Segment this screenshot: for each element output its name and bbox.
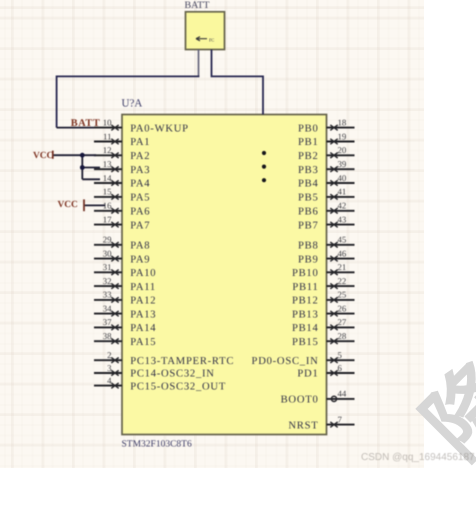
svg-text:42: 42 — [338, 201, 347, 211]
svg-text:41: 41 — [338, 187, 347, 197]
svg-text:PA5: PA5 — [130, 193, 150, 204]
svg-text:10: 10 — [103, 117, 112, 127]
svg-text:PD1: PD1 — [297, 369, 318, 380]
svg-text:BATT: BATT — [185, 0, 210, 11]
svg-text:22: 22 — [338, 276, 347, 286]
svg-text:BATT: BATT — [71, 118, 100, 129]
svg-text:PC13-TAMPER-RTC: PC13-TAMPER-RTC — [130, 356, 234, 367]
svg-text:45: 45 — [338, 235, 347, 245]
svg-text:PA8: PA8 — [130, 241, 150, 252]
svg-text:5: 5 — [338, 350, 343, 360]
svg-text:PB5: PB5 — [298, 193, 319, 204]
svg-text:37: 37 — [103, 317, 112, 327]
svg-text:44: 44 — [338, 389, 347, 399]
svg-text:6: 6 — [338, 363, 343, 373]
svg-text:13: 13 — [103, 159, 112, 169]
svg-text:PB15: PB15 — [292, 337, 319, 348]
svg-text:PB4: PB4 — [298, 179, 319, 190]
svg-text:PA11: PA11 — [130, 282, 156, 293]
svg-text:PC14-OSC32_IN: PC14-OSC32_IN — [130, 369, 215, 380]
svg-text:PB13: PB13 — [292, 309, 319, 320]
svg-text:21: 21 — [338, 262, 347, 272]
svg-text:PB2: PB2 — [298, 151, 319, 162]
svg-text:25: 25 — [338, 290, 347, 300]
svg-text:VCC: VCC — [33, 151, 54, 161]
svg-text:30: 30 — [103, 248, 112, 258]
svg-text:PC15-OSC32_OUT: PC15-OSC32_OUT — [130, 381, 226, 392]
svg-text:PB11: PB11 — [292, 282, 318, 293]
svg-text:17: 17 — [103, 214, 112, 224]
svg-text:PA9: PA9 — [130, 254, 150, 265]
svg-text:31: 31 — [103, 262, 112, 272]
svg-text:26: 26 — [338, 303, 347, 313]
svg-text:PB9: PB9 — [298, 254, 319, 265]
svg-text:19: 19 — [338, 131, 347, 141]
svg-text:CSDN @qq_1694456187: CSDN @qq_1694456187 — [361, 452, 475, 463]
svg-text:PA15: PA15 — [130, 337, 156, 348]
svg-text:PB14: PB14 — [292, 323, 319, 334]
svg-text:PB3: PB3 — [298, 165, 319, 176]
svg-text:PB10: PB10 — [292, 268, 319, 279]
svg-text:46: 46 — [338, 248, 347, 258]
svg-text:PB7: PB7 — [298, 220, 319, 231]
svg-text:PA10: PA10 — [130, 268, 156, 279]
svg-text:PA1: PA1 — [130, 137, 150, 148]
svg-text:34: 34 — [103, 303, 112, 313]
svg-text:PA13: PA13 — [130, 309, 156, 320]
svg-text:11: 11 — [103, 131, 111, 141]
svg-text:PA14: PA14 — [130, 323, 156, 334]
svg-text:PA6: PA6 — [130, 207, 150, 218]
svg-text:PA12: PA12 — [130, 296, 156, 307]
svg-text:28: 28 — [338, 331, 347, 341]
svg-text:PA4: PA4 — [130, 179, 150, 190]
svg-text:PD0-OSC_IN: PD0-OSC_IN — [252, 356, 319, 367]
svg-text:39: 39 — [338, 159, 347, 169]
svg-text:15: 15 — [103, 187, 112, 197]
svg-text:7: 7 — [338, 414, 343, 424]
svg-text:43: 43 — [338, 214, 347, 224]
svg-text:20: 20 — [338, 145, 347, 155]
svg-text:PA2: PA2 — [130, 151, 150, 162]
svg-text:PB8: PB8 — [298, 241, 319, 252]
svg-text:STM32F103C8T6: STM32F103C8T6 — [122, 440, 192, 450]
svg-text:12: 12 — [103, 145, 112, 155]
svg-text:VCC: VCC — [58, 200, 79, 210]
svg-text:PA7: PA7 — [130, 220, 150, 231]
svg-text:3: 3 — [107, 363, 112, 373]
svg-text:32: 32 — [103, 276, 112, 286]
svg-text:PB6: PB6 — [298, 207, 319, 218]
svg-text:PB0: PB0 — [298, 123, 319, 134]
svg-text:40: 40 — [338, 173, 347, 183]
svg-text:2: 2 — [107, 350, 111, 360]
svg-text:PB12: PB12 — [292, 296, 319, 307]
svg-text:PA0-WKUP: PA0-WKUP — [130, 123, 189, 134]
svg-text:29: 29 — [103, 235, 112, 245]
svg-text:27: 27 — [338, 317, 347, 327]
svg-text:U?A: U?A — [122, 98, 143, 110]
svg-text:14: 14 — [103, 173, 112, 183]
svg-text:18: 18 — [338, 117, 347, 127]
svg-text:PA3: PA3 — [130, 165, 150, 176]
svg-text:4: 4 — [107, 375, 112, 385]
svg-text:33: 33 — [103, 290, 112, 300]
svg-text:NRST: NRST — [288, 420, 318, 431]
svg-text:rᴄ: rᴄ — [209, 37, 214, 44]
svg-text:PB1: PB1 — [298, 137, 319, 148]
svg-text:BOOT0: BOOT0 — [281, 395, 319, 406]
svg-text:38: 38 — [103, 331, 112, 341]
